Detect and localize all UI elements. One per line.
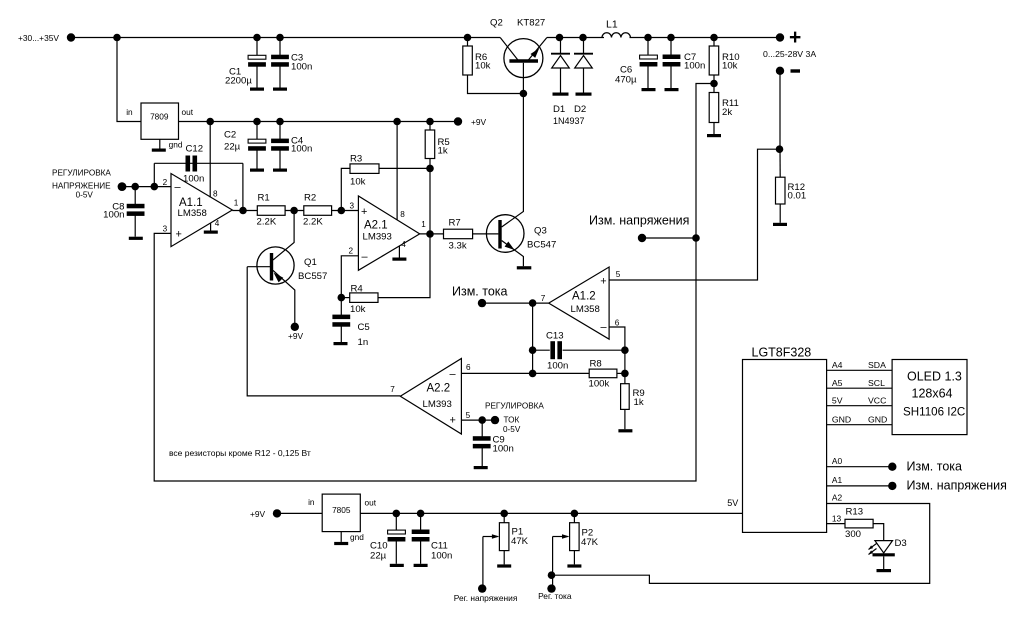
svg-text:Q1: Q1: [304, 257, 317, 268]
svg-text:2.2K: 2.2K: [257, 217, 277, 228]
svg-text:LGT8F328: LGT8F328: [752, 346, 812, 360]
svg-text:5: 5: [466, 411, 471, 420]
svg-text:7: 7: [390, 385, 395, 394]
svg-text:7: 7: [541, 294, 546, 303]
svg-text:100k: 100k: [589, 379, 610, 390]
svg-text:out: out: [182, 107, 194, 117]
svg-text:4: 4: [401, 240, 406, 249]
svg-text:A2.2: A2.2: [427, 383, 451, 395]
svg-text:SH1106 I2C: SH1106 I2C: [903, 406, 965, 419]
svg-text:2: 2: [349, 246, 354, 255]
svg-text:Рег. тока: Рег. тока: [538, 591, 572, 601]
svg-text:100n: 100n: [183, 174, 204, 185]
svg-text:НАПРЯЖЕНИЕ: НАПРЯЖЕНИЕ: [52, 182, 111, 191]
svg-text:100n: 100n: [684, 61, 705, 72]
svg-text:100n: 100n: [103, 210, 124, 221]
svg-text:47K: 47K: [511, 536, 529, 547]
svg-text:R8: R8: [590, 359, 602, 370]
svg-text:R13: R13: [846, 507, 864, 518]
svg-text:5V: 5V: [832, 396, 843, 406]
svg-text:3: 3: [350, 202, 355, 211]
svg-text:5: 5: [616, 270, 621, 279]
svg-text:1: 1: [421, 220, 426, 229]
svg-text:LM358: LM358: [571, 304, 600, 315]
svg-text:Q2: Q2: [490, 18, 503, 29]
svg-text:1: 1: [234, 198, 239, 207]
svg-text:РЕГУЛИРОВКА: РЕГУЛИРОВКА: [485, 402, 544, 411]
svg-text:128x64: 128x64: [912, 387, 953, 401]
svg-text:100n: 100n: [431, 551, 452, 562]
svg-text:2: 2: [163, 178, 168, 187]
svg-text:Изм. напряжения: Изм. напряжения: [907, 479, 1007, 493]
svg-text:out: out: [365, 497, 377, 507]
svg-text:ТОК: ТОК: [504, 416, 520, 425]
svg-text:13: 13: [832, 514, 842, 524]
svg-text:R4: R4: [351, 284, 364, 295]
svg-text:2200µ: 2200µ: [225, 76, 252, 87]
svg-text:D3: D3: [895, 538, 907, 549]
svg-text:SDA: SDA: [868, 360, 886, 370]
svg-text:LM358: LM358: [178, 208, 207, 219]
svg-text:3.3k: 3.3k: [449, 241, 467, 252]
svg-text:gnd: gnd: [350, 532, 364, 542]
svg-text:2.2K: 2.2K: [303, 217, 323, 228]
svg-text:22µ: 22µ: [370, 551, 387, 562]
svg-text:A2.1: A2.1: [364, 220, 388, 232]
svg-text:GND: GND: [868, 415, 887, 425]
svg-text:R3: R3: [350, 154, 362, 165]
svg-text:8: 8: [213, 189, 218, 198]
svg-text:C12: C12: [186, 143, 204, 154]
svg-text:РЕГУЛИРОВКА: РЕГУЛИРОВКА: [52, 169, 111, 178]
svg-text:+9V: +9V: [288, 331, 304, 341]
svg-text:+30...+35V: +30...+35V: [18, 33, 59, 43]
svg-text:10k: 10k: [350, 177, 366, 188]
svg-text:7805: 7805: [332, 505, 351, 515]
svg-text:4: 4: [215, 219, 220, 228]
svg-text:A5: A5: [832, 378, 843, 388]
svg-text:0...25-28V 3A: 0...25-28V 3A: [763, 49, 816, 59]
svg-text:22µ: 22µ: [224, 142, 241, 153]
svg-text:R7: R7: [449, 218, 461, 229]
svg-text:SCL: SCL: [868, 378, 885, 388]
svg-text:A1: A1: [832, 475, 843, 485]
svg-text:3: 3: [163, 225, 168, 234]
svg-text:10k: 10k: [350, 304, 366, 315]
svg-text:R2: R2: [304, 193, 316, 204]
svg-text:in: in: [308, 497, 315, 507]
svg-text:LM393: LM393: [423, 399, 452, 410]
svg-text:–: –: [601, 322, 608, 334]
svg-text:+9V: +9V: [250, 509, 266, 519]
svg-text:2k: 2k: [722, 107, 732, 118]
svg-text:10k: 10k: [475, 61, 491, 72]
svg-text:100n: 100n: [291, 62, 312, 73]
svg-text:100n: 100n: [547, 361, 568, 372]
svg-text:+: +: [450, 415, 456, 427]
svg-text:0-5V: 0-5V: [76, 190, 94, 199]
svg-text:gnd: gnd: [169, 140, 183, 150]
svg-text:6: 6: [615, 318, 620, 327]
svg-text:1k: 1k: [634, 397, 644, 408]
svg-text:C2: C2: [224, 130, 236, 141]
svg-text:Изм. напряжения: Изм. напряжения: [589, 214, 689, 228]
svg-text:LM393: LM393: [363, 232, 392, 243]
svg-text:A0: A0: [832, 456, 843, 466]
svg-text:Рег. напряжения: Рег. напряжения: [454, 593, 518, 603]
svg-text:BC547: BC547: [527, 240, 556, 251]
svg-text:1n: 1n: [358, 337, 369, 348]
svg-text:все резисторы кроме R12 - 0,12: все резисторы кроме R12 - 0,125 Вт: [169, 448, 311, 458]
svg-text:in: in: [126, 107, 133, 117]
svg-text:1k: 1k: [438, 146, 448, 157]
svg-text:Q3: Q3: [534, 226, 547, 237]
svg-text:+: +: [176, 228, 182, 240]
svg-text:0-5V: 0-5V: [503, 425, 521, 434]
svg-text:D2: D2: [574, 104, 586, 115]
svg-text:BC557: BC557: [298, 271, 327, 282]
svg-text:+: +: [361, 206, 367, 218]
svg-text:OLED 1.3: OLED 1.3: [907, 370, 962, 384]
svg-text:A1.2: A1.2: [572, 291, 596, 303]
svg-text:100n: 100n: [493, 444, 514, 455]
svg-text:GND: GND: [832, 415, 851, 425]
svg-text:10k: 10k: [722, 61, 738, 72]
svg-text:VCC: VCC: [868, 396, 886, 406]
svg-text:A4: A4: [832, 360, 843, 370]
svg-text:Изм. тока: Изм. тока: [452, 285, 508, 299]
svg-text:C13: C13: [546, 331, 564, 342]
svg-text:D1: D1: [553, 104, 565, 115]
svg-text:100n: 100n: [291, 144, 312, 155]
svg-text:A2: A2: [832, 492, 843, 502]
svg-text:5V: 5V: [727, 498, 738, 508]
svg-text:300: 300: [845, 529, 861, 540]
svg-text:8: 8: [400, 210, 405, 219]
svg-text:–: –: [362, 251, 369, 263]
svg-text:–: –: [175, 181, 182, 193]
svg-text:KT827: KT827: [517, 18, 545, 29]
svg-text:7809: 7809: [150, 111, 169, 121]
svg-text:L1: L1: [606, 19, 618, 31]
svg-text:470µ: 470µ: [615, 75, 637, 86]
svg-text:R1: R1: [258, 193, 270, 204]
svg-text:–: –: [450, 369, 457, 381]
svg-text:+: +: [789, 26, 801, 49]
svg-text:1N4937: 1N4937: [553, 116, 585, 126]
svg-text:47K: 47K: [581, 537, 599, 548]
svg-text:+: +: [600, 276, 606, 288]
svg-text:C5: C5: [358, 322, 370, 333]
svg-text:+9V: +9V: [471, 117, 487, 127]
svg-text:Изм. тока: Изм. тока: [907, 460, 963, 474]
svg-text:0.01: 0.01: [788, 191, 807, 202]
svg-text:6: 6: [466, 363, 471, 372]
